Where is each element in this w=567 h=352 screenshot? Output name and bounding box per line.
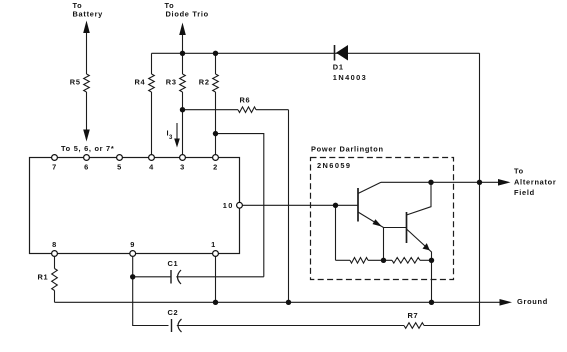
wire: pin 9 drop x=132.7 down to C2 row bbox=[133, 257, 169, 326]
wire: R7 to right vertical bbox=[424, 325, 480, 327]
pin 3 terminal bbox=[180, 155, 186, 161]
svg-text:6: 6 bbox=[84, 163, 89, 172]
svg-text:1N4003: 1N4003 bbox=[333, 73, 367, 82]
wire: R2 tap row y=133.6 bbox=[216, 134, 264, 277]
pin 10 terminal bbox=[237, 202, 243, 208]
wire: R1 bottom to ground row corner bbox=[54, 291, 56, 303]
transistor Q1 collector bbox=[358, 182, 381, 193]
arrowhead: battery branch down to pin label bbox=[83, 130, 90, 142]
arrowhead: to diode trio (up) bbox=[179, 23, 186, 36]
junction dot: R2 tap bbox=[213, 131, 218, 136]
wire: R6 to vertical drop bbox=[256, 109, 289, 111]
svg-text:3: 3 bbox=[169, 135, 173, 141]
wire: diode trio arrow shaft bbox=[182, 34, 184, 53]
resistor R4 bbox=[151, 53, 153, 74]
svg-text:R2: R2 bbox=[199, 78, 210, 87]
wire: ground row y=302 bbox=[55, 301, 501, 303]
wire: pin 8 drop and resistor R1 bbox=[54, 257, 56, 269]
svg-text:5: 5 bbox=[117, 163, 122, 172]
capacitor C2 bbox=[171, 319, 173, 332]
svg-text:Power Darlington: Power Darlington bbox=[311, 144, 384, 153]
transistor Q1 emitter bbox=[358, 212, 384, 228]
svg-text:9: 9 bbox=[130, 240, 135, 249]
junction dot: R6 / ground bbox=[286, 300, 291, 305]
junction dot: collector rail / D1 vertical bbox=[477, 180, 482, 185]
resistor internal R (base-emitter Q2 left) bbox=[350, 258, 368, 264]
transistor Q2 base bar bbox=[406, 212, 408, 243]
svg-text:To 5, 6, or 7*: To 5, 6, or 7* bbox=[61, 144, 114, 153]
transistor Q1 base bar bbox=[357, 188, 359, 222]
junction dot: Q2 emitter / ground bbox=[429, 300, 434, 305]
IC box U1 bbox=[30, 158, 240, 254]
svg-text:C2: C2 bbox=[168, 308, 179, 317]
svg-text:2: 2 bbox=[213, 163, 218, 172]
wire: C2 row to R7 bbox=[177, 325, 404, 327]
wire: collector rail / to alternator field y=181.5 bbox=[381, 181, 499, 183]
wire: pin 10 row to darlington base bbox=[243, 204, 359, 206]
pin 6 terminal bbox=[84, 155, 90, 161]
svg-text:Diode Trio: Diode Trio bbox=[166, 10, 209, 19]
junction dot: darlington base node bbox=[333, 203, 338, 208]
svg-text:10: 10 bbox=[223, 201, 234, 210]
pin 1 terminal bbox=[213, 251, 219, 257]
wire: Q1 emitter to Q2 base bbox=[384, 227, 407, 229]
svg-text:Battery: Battery bbox=[73, 10, 104, 19]
junction dot: pin9 / C1 row bbox=[130, 274, 135, 279]
arrowhead: ground (right) bbox=[500, 299, 513, 306]
wire: C1 row right segment up to R2 tap node bbox=[176, 276, 263, 278]
resistor R1 bbox=[52, 269, 58, 291]
pin 2 terminal bbox=[213, 155, 219, 161]
resistor R7 bbox=[404, 323, 424, 329]
transistor Q2 collector bbox=[407, 182, 432, 215]
arrowhead: I3 current arrow bbox=[176, 123, 178, 140]
svg-text:4: 4 bbox=[149, 163, 154, 172]
svg-text:2N6059: 2N6059 bbox=[317, 161, 351, 170]
wire: battery branch lower shaft bbox=[86, 92, 88, 131]
transistor Q2 emitter bbox=[407, 229, 432, 260]
svg-text:R7: R7 bbox=[408, 311, 419, 320]
svg-text:R6: R6 bbox=[240, 96, 251, 105]
resistor internal R (base-emitter Q2 right) bbox=[392, 258, 420, 264]
wire: diode-trio top rail y=53 bbox=[152, 52, 480, 54]
wire: right vertical x=479.5 from top rail to R7 row bbox=[479, 53, 481, 325]
arrowhead: to battery (up) bbox=[83, 21, 90, 34]
wire: battery branch vertical at x=86.5 bbox=[86, 30, 88, 74]
junction dot: R2 / rail bbox=[213, 51, 218, 56]
wire: internal resistor row bbox=[336, 259, 351, 261]
pin 4 terminal bbox=[149, 155, 155, 161]
diode D1 triangle bbox=[336, 45, 348, 61]
junction dot: collector rail / Q2 bbox=[428, 180, 433, 185]
resistor R2 bbox=[215, 53, 217, 74]
wire: base node drop to internal resistor row bbox=[335, 205, 337, 260]
pin 7 terminal bbox=[52, 155, 58, 161]
svg-text:R5: R5 bbox=[70, 78, 81, 87]
wire: pin 1 drop to ground bbox=[215, 256, 217, 302]
svg-text:Field: Field bbox=[514, 188, 535, 197]
junction dot: pin1 / ground bbox=[213, 300, 218, 305]
svg-text:D1: D1 bbox=[333, 62, 344, 71]
svg-text:1: 1 bbox=[211, 240, 216, 249]
pin 9 terminal bbox=[130, 251, 136, 257]
svg-text:C1: C1 bbox=[168, 259, 179, 268]
junction dot: R3 / rail bbox=[180, 51, 185, 56]
pin 5 terminal bbox=[117, 155, 123, 161]
wire: C1 row left segment bbox=[133, 276, 171, 278]
junction dot: internal row center bbox=[381, 258, 386, 263]
resistor R3 bbox=[182, 53, 184, 74]
capacitor C1 bbox=[170, 270, 172, 284]
svg-text:7: 7 bbox=[52, 163, 57, 172]
svg-text:R4: R4 bbox=[135, 78, 146, 87]
resistor R5 bbox=[84, 74, 90, 92]
pin 8 terminal bbox=[52, 251, 58, 257]
wire: vertical x=288 from R6 row to ground bbox=[288, 110, 290, 303]
diode D1 cathode bar bbox=[334, 45, 336, 61]
arrowhead: Q1 emitter bbox=[373, 219, 383, 226]
svg-text:Ground: Ground bbox=[517, 297, 548, 306]
svg-text:R1: R1 bbox=[38, 273, 49, 282]
junction dot: R3 / R6 row bbox=[180, 107, 185, 112]
resistor R6 bbox=[238, 107, 256, 113]
wire: R6 row from R3 junction to x=288 bbox=[183, 109, 239, 111]
wire: emitter node down to internal resistor row bbox=[383, 228, 385, 261]
arrowhead: Q2 emitter bbox=[423, 243, 430, 250]
svg-text:R3: R3 bbox=[166, 78, 177, 87]
wire: between internal resistors bbox=[368, 259, 392, 261]
wire: Q2 emitter node down to ground bbox=[431, 260, 433, 302]
svg-text:8: 8 bbox=[52, 240, 57, 249]
power darlington dashed box bbox=[311, 158, 454, 280]
arrowhead: to alternator field (right) bbox=[498, 179, 511, 186]
svg-text:3: 3 bbox=[180, 163, 185, 172]
svg-text:Alternator: Alternator bbox=[514, 177, 557, 186]
junction dot: internal row right / Q2 emitter bbox=[429, 258, 434, 263]
svg-text:To: To bbox=[514, 167, 524, 176]
wire: internal row right end bbox=[420, 259, 432, 261]
